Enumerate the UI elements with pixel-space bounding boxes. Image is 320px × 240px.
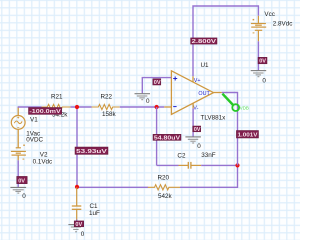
wire: op-amp output pin stub xyxy=(214,92,222,94)
svg-text:R21: R21 xyxy=(51,93,63,100)
wire: C1 to ground xyxy=(76,220,78,225)
svg-text:U1: U1 xyxy=(201,62,210,69)
wire: V2 bottom to ground xyxy=(17,155,19,160)
svg-text:1uF: 1uF xyxy=(89,210,100,217)
wire: R22 to inverting input node xyxy=(120,106,165,108)
svg-text:R20: R20 xyxy=(158,175,170,182)
DC source Vcc xyxy=(251,11,293,33)
wire: non-inverting input to ground xyxy=(142,78,171,94)
node junction (lower net / C1) xyxy=(75,185,79,189)
svg-text:33nF: 33nF xyxy=(201,152,216,159)
bias label -100.0mV (input net) xyxy=(29,108,62,116)
ground 0 (non-inverting input) xyxy=(135,94,151,105)
svg-text:TLV881x: TLV881x xyxy=(201,115,227,122)
bias label 0V (non-inverting input) xyxy=(153,79,161,86)
capacitor C2 xyxy=(157,152,216,169)
bias label 0V (Vcc ground) xyxy=(258,57,267,64)
wire: node A down to lower net xyxy=(76,107,78,187)
ground 0 (V2) xyxy=(10,187,26,200)
svg-text:0V: 0V xyxy=(154,80,161,86)
svg-text:0V: 0V xyxy=(259,59,266,65)
resistor R20 xyxy=(148,175,180,200)
svg-text:0: 0 xyxy=(197,143,201,150)
svg-text:0: 0 xyxy=(146,98,150,105)
svg-text:VDB: VDB xyxy=(240,105,249,110)
wire: R21 to node A junction xyxy=(71,106,92,108)
wire: output net to feedback node xyxy=(222,93,238,166)
bias label 0V (V2 ground) xyxy=(17,176,28,184)
bias label 0V (V- rail) xyxy=(193,126,201,133)
svg-text:C1: C1 xyxy=(90,203,99,210)
AC source V1 xyxy=(11,116,43,144)
svg-text:0: 0 xyxy=(81,231,85,238)
svg-text:0V: 0V xyxy=(18,178,25,184)
node junction at inverting input xyxy=(155,105,159,109)
wire: V1 bottom to V2 top xyxy=(17,129,19,148)
svg-text:1.001V: 1.001V xyxy=(238,133,258,139)
ground 0 (Vcc) xyxy=(251,71,267,85)
wire: C2 to feedback node xyxy=(201,164,238,166)
wire: R20 to feedback node xyxy=(180,165,238,187)
bias label 2.800V (V+ rail) xyxy=(191,38,217,45)
ground 0 (C1) xyxy=(68,225,84,239)
svg-text:2.800V: 2.800V xyxy=(192,39,217,45)
wire: Vcc to ground xyxy=(257,30,259,41)
wire: op-amp inverting input pin stub xyxy=(164,106,171,108)
wire: main input net V1 to R21 xyxy=(18,106,42,108)
DC source V2 xyxy=(11,145,52,166)
voltage probe marker on output xyxy=(222,94,248,111)
wire: V+ pin rail up and over to Vcc xyxy=(192,76,194,82)
svg-text:0: 0 xyxy=(262,78,266,85)
svg-text:C2: C2 xyxy=(177,152,186,159)
bias label 54.80uV (inverting input net) xyxy=(153,134,181,141)
svg-text:158k: 158k xyxy=(102,111,117,118)
svg-text:53.93uV: 53.93uV xyxy=(76,149,107,155)
svg-text:-100.0mV: -100.0mV xyxy=(29,109,61,115)
node A junction (R21/R22) xyxy=(75,105,79,109)
op-amp U1 TLV881x xyxy=(171,62,226,122)
svg-text:2.8Vdc: 2.8Vdc xyxy=(273,21,293,28)
svg-text:OUT: OUT xyxy=(198,91,210,97)
svg-text:0V: 0V xyxy=(75,222,82,228)
resistor R22 xyxy=(92,93,120,118)
capacitor C1 xyxy=(72,187,100,220)
svg-text:0VDC: 0VDC xyxy=(26,137,43,144)
svg-text:0.1Vdc: 0.1Vdc xyxy=(33,158,53,165)
feedback node junction xyxy=(235,163,239,167)
wire: inverting input node down to C2 net xyxy=(156,107,158,165)
bias label 53.93uV (node A net) xyxy=(75,147,108,155)
svg-text:Vcc: Vcc xyxy=(264,11,275,18)
svg-text:0: 0 xyxy=(22,193,26,200)
bias label 0V (C1 ground) xyxy=(74,221,84,228)
svg-text:R22: R22 xyxy=(101,93,113,100)
svg-text:V-: V- xyxy=(193,105,198,111)
resistor R21 xyxy=(42,93,71,118)
wire: lower net junction to R20 xyxy=(77,186,148,188)
svg-text:V1: V1 xyxy=(30,116,38,123)
wire: V- pin down to ground xyxy=(192,103,194,109)
svg-text:54.80uV: 54.80uV xyxy=(154,136,181,142)
wire: V1 top pin up to main input net xyxy=(17,107,19,116)
svg-text:0V: 0V xyxy=(194,127,201,133)
svg-text:542k: 542k xyxy=(158,193,173,200)
ground 0 (V- pin) xyxy=(185,137,201,150)
svg-text:V+: V+ xyxy=(194,78,201,84)
bias label 1.001V (output net) xyxy=(236,131,258,139)
